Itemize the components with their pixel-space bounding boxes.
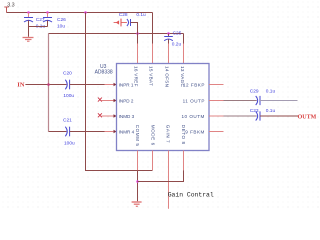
svg-text:0.1u: 0.1u [266,88,276,94]
node junction C25-rail [167,32,170,35]
node junction VREF-C28 [136,32,139,35]
pin 1 INPR stub [105,83,117,87]
pin 6 MODE stub [152,151,154,171]
svg-text:13 VAGC: 13 VAGC [180,66,185,88]
pin 4 INMR stub [105,130,117,134]
svg-text:100u: 100u [64,140,75,146]
svg-text:C21: C21 [63,118,72,124]
capacitor C28 [114,12,146,44]
node junction mode-drop [84,11,87,14]
svg-text:GAIN 7: GAIN 7 [166,125,171,143]
svg-text:10 OUTM: 10 OUTM [181,114,204,119]
svg-text:INMR 4: INMR 4 [119,129,135,134]
wire IN to C20 [25,84,66,86]
svg-text:16 VREF: 16 VREF [134,66,139,87]
wire VBAT riser [152,13,154,44]
capacitor C21 [49,118,76,147]
capacitor C20 [63,70,74,99]
svg-text:14 OFSN: 14 OFSN [165,66,170,87]
wire IN-net riser and upper rail [48,34,50,132]
svg-text:INPD 2: INPD 2 [119,98,134,103]
wire mode 3.3 drop [86,13,153,171]
pin 14 OFSN stub [168,44,170,64]
ground GND bottom [132,202,142,206]
svg-text:3.3: 3.3 [7,3,15,9]
pin 12 FBKP stub [209,84,224,86]
svg-text:0.1u: 0.1u [266,108,276,114]
wire C20 to pin1 [70,84,105,86]
svg-text:C25: C25 [173,31,182,37]
pin 15 VBAT stub [152,44,154,64]
svg-text:INMD 3: INMD 3 [119,114,135,119]
wire C29 to open end [260,100,298,102]
wire 3.3V top rail [7,12,153,14]
pin 3 INMD stub with no-connect X [98,113,117,118]
node junction C27-rail [27,11,30,14]
svg-text:COMM 5: COMM 5 [135,125,140,147]
svg-text:C23: C23 [250,108,259,114]
svg-text:15 VBAT: 15 VBAT [149,66,154,86]
svg-text:INPR 1: INPR 1 [119,82,134,87]
wire C23 to OUTM port [260,115,298,117]
svg-text:IN: IN [17,82,25,89]
capacitor C27 [24,13,45,30]
ground GND top-left [23,38,34,42]
svg-text:C29: C29 [250,88,259,94]
pin 5 COMM stub [137,151,139,171]
svg-text:MODE 6: MODE 6 [150,125,155,146]
wire cap bottoms to ground [29,27,48,37]
svg-text:11 OUTP: 11 OUTP [183,98,205,103]
capacitor C25 [164,31,182,48]
pin 16 VREF stub [137,44,139,64]
svg-text:10u: 10u [57,24,65,30]
power port 3.3 [4,3,14,13]
node junction COMM-DETO [136,180,139,183]
op-amp U1 AD8338 IC body [95,64,209,151]
pin 8 DETO stub [183,151,185,171]
pin 13 VAGC stub [183,44,185,64]
capacitor C26 [43,13,66,30]
svg-text:12 FBKP: 12 FBKP [183,82,205,87]
svg-text:C20: C20 [63,70,72,76]
capacitor C23 [250,108,276,121]
svg-text:100u: 100u [63,93,74,99]
svg-text:0.2u: 0.2u [172,42,182,48]
svg-text:Gain Contral: Gain Contral [168,191,214,198]
wire COMM to ground [137,170,139,201]
pin 10 OUTM stub [209,115,224,117]
svg-text:C28: C28 [119,12,128,18]
node junction IN riser [47,83,50,86]
svg-text:0.1u: 0.1u [136,12,146,18]
wire VAGC riser [183,34,185,44]
pin 9 FBKM stub [209,131,224,133]
wire OUTP to C29 [224,100,257,102]
svg-text:DETO 8: DETO 8 [181,125,186,145]
pin 2 INPD stub with no-connect X [98,98,117,103]
capacitor C29 [250,88,276,105]
wire DETO to COMM [138,170,184,181]
svg-text:9 FBKM: 9 FBKM [185,129,205,134]
pin 7 GAIN wire [168,151,170,209]
svg-text:AD8338: AD8338 [95,69,113,75]
svg-text:C26: C26 [57,17,66,23]
wire C21 to pin4 [70,131,105,133]
node junction C26-rail [46,11,49,14]
pin 11 OUTP stub [209,100,224,102]
svg-text:OUTM: OUTM [298,114,317,120]
wire OUTM to C23 [224,115,257,117]
